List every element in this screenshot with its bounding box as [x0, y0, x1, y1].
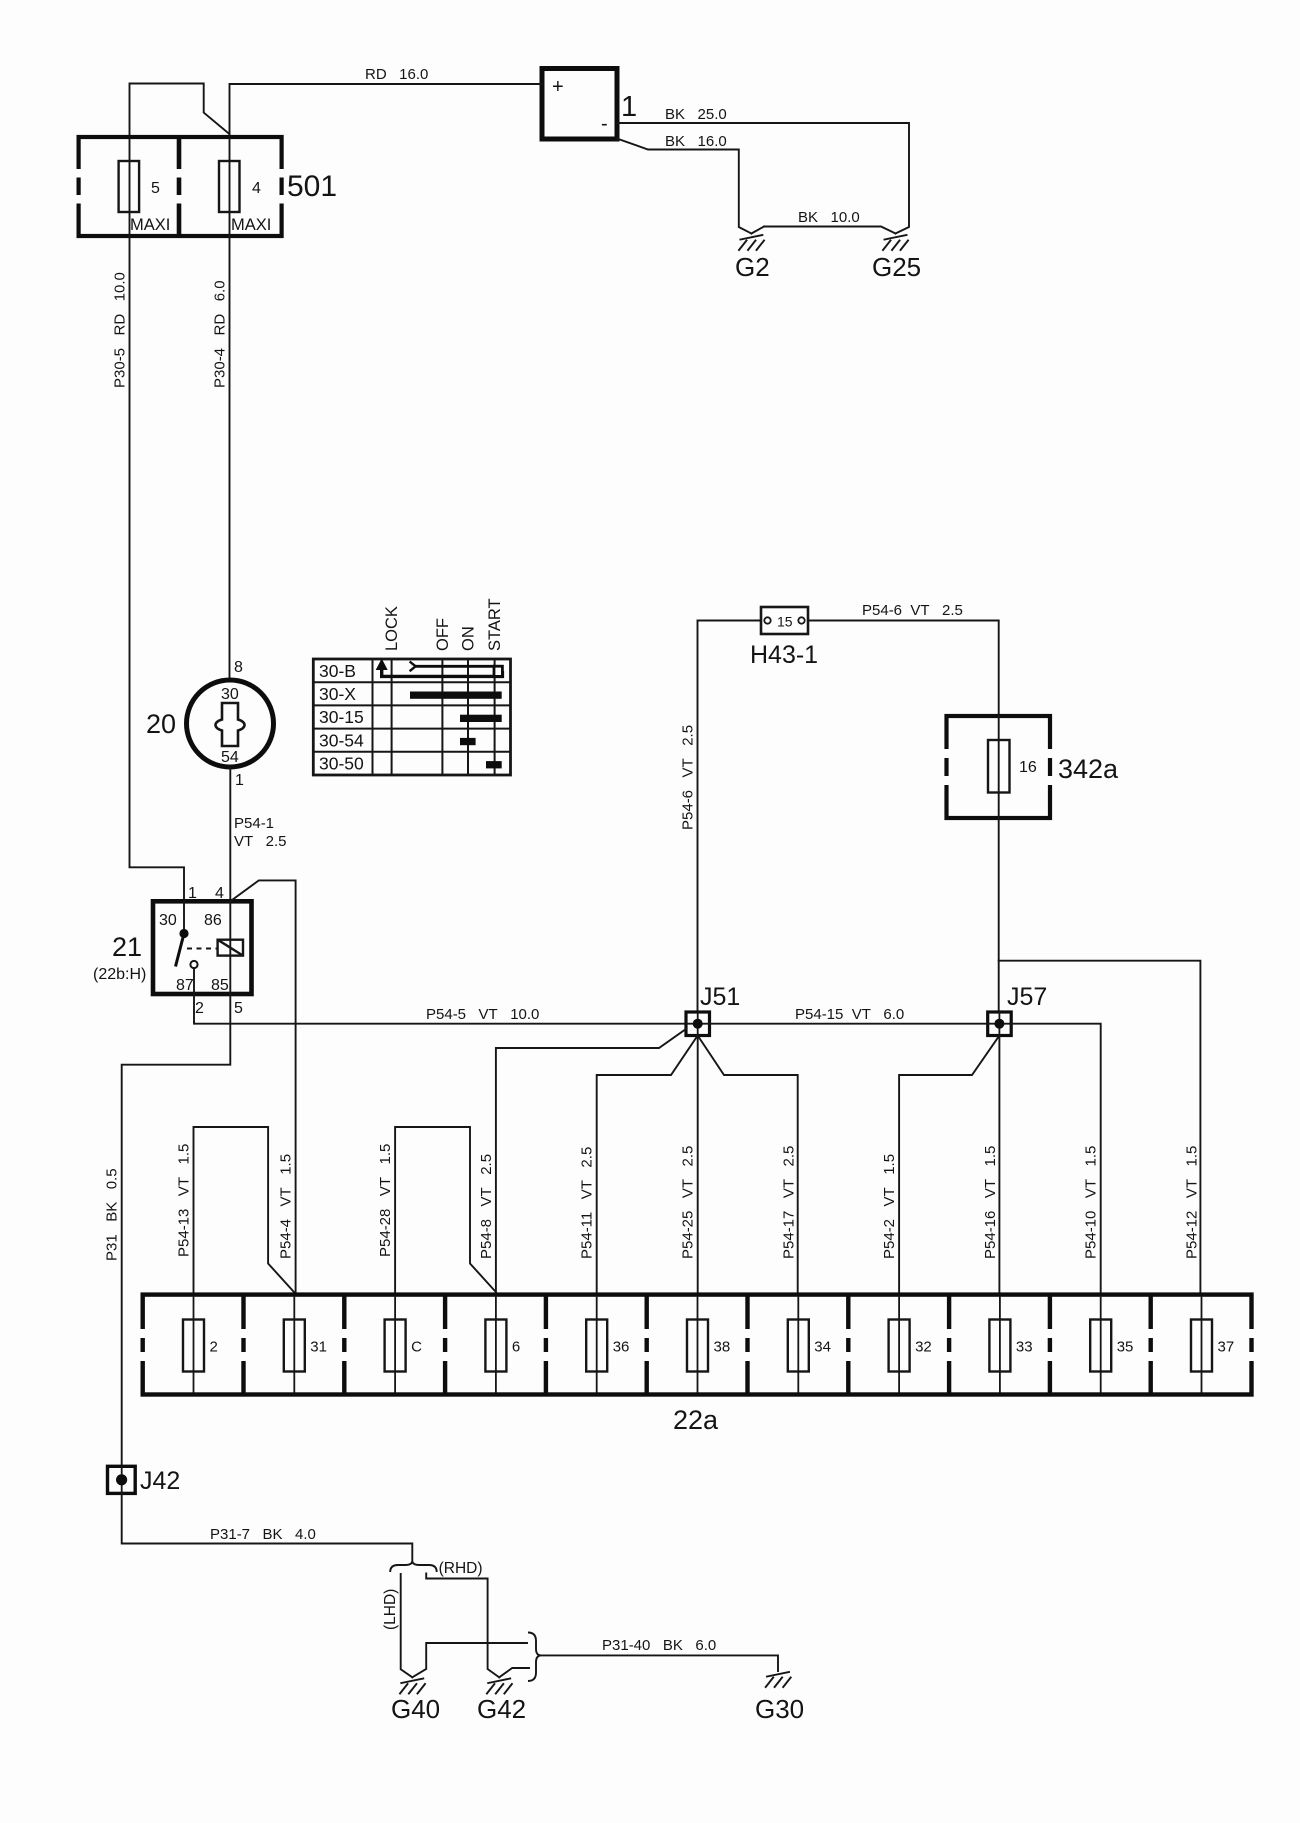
fuse C in 22a [385, 1297, 423, 1393]
svg-text:30: 30 [221, 686, 239, 703]
relay coil box [218, 940, 243, 956]
svg-text:15: 15 [777, 614, 793, 630]
svg-text:87: 87 [176, 977, 194, 994]
wire BK 25.0 battery- to G25 [617, 123, 909, 234]
svg-text:1: 1 [235, 772, 244, 789]
svg-text:P54-28 VT 1.5: P54-28 VT 1.5 [377, 1144, 394, 1257]
relay box 342a [942, 716, 1055, 818]
wire P54-6 VT 2.5 J51 up to fuse H43-1 [698, 621, 762, 1013]
svg-text:342a: 342a [1058, 754, 1119, 784]
svg-text:P54-12 VT 1.5: P54-12 VT 1.5 [1184, 1146, 1201, 1259]
battery 1 [542, 69, 617, 140]
svg-text:G2: G2 [735, 252, 770, 282]
wire J51 branch to fuse 34 [698, 1036, 798, 1294]
relay pin1 stub [183, 901, 185, 933]
svg-text:+: + [552, 76, 564, 98]
svg-text:ON: ON [460, 626, 478, 651]
wire loop fuse C to fuse 6 [395, 1127, 496, 1293]
svg-text:START: START [486, 598, 504, 651]
svg-text:34: 34 [814, 1339, 831, 1356]
svg-text:4: 4 [252, 180, 261, 197]
fuse 6 in 22a [485, 1297, 520, 1393]
svg-text:36: 36 [613, 1339, 630, 1356]
svg-text:P54-8 VT 2.5: P54-8 VT 2.5 [478, 1154, 495, 1259]
node J42 [108, 1466, 136, 1493]
ignition switch 20 circle [187, 680, 274, 767]
wire relay pin5 to J42 [122, 994, 231, 1466]
svg-text:P30-5 RD 10.0: P30-5 RD 10.0 [112, 272, 129, 388]
svg-text:RD 16.0: RD 16.0 [365, 66, 428, 83]
svg-text:P54-5 VT 10.0: P54-5 VT 10.0 [426, 1006, 539, 1023]
svg-text:30-50: 30-50 [319, 754, 364, 774]
svg-text:4: 4 [215, 885, 224, 902]
svg-text:38: 38 [714, 1339, 731, 1356]
ignition key symbol [216, 703, 245, 746]
svg-text:P54-10 VT 1.5: P54-10 VT 1.5 [1083, 1146, 1100, 1259]
node J57 [988, 1012, 1012, 1036]
svg-text:J51: J51 [700, 983, 740, 1011]
table bar 30-50 [486, 761, 502, 768]
svg-text:BK 25.0: BK 25.0 [665, 106, 727, 123]
svg-text:501: 501 [287, 170, 337, 203]
svg-text:P31-7 BK 4.0: P31-7 BK 4.0 [210, 1526, 316, 1543]
wire P54-6 VT 2.5 fuse to 342a [808, 621, 999, 717]
svg-text:(LHD): (LHD) [382, 1589, 399, 1630]
wire P30-5 RD 10.0 fuse5 to relay pin1 [130, 236, 185, 901]
svg-text:22a: 22a [673, 1405, 719, 1435]
wire G40 collect to brace [412, 1643, 527, 1677]
svg-text:LOCK: LOCK [383, 606, 401, 651]
svg-text:P54-16 VT 1.5: P54-16 VT 1.5 [982, 1146, 999, 1259]
brace collect to P31-40 [528, 1633, 541, 1682]
table 30-B key arrow symbol [376, 659, 503, 677]
wire J57 down to fuse 33 [998, 1036, 1000, 1294]
svg-text:P54-6 VT 2.5: P54-6 VT 2.5 [862, 602, 963, 619]
fuse 36 in 22a [586, 1297, 629, 1393]
wire BK 10.0 between G2 and G25 [751, 227, 895, 234]
svg-text:-: - [601, 113, 608, 135]
svg-text:6: 6 [512, 1339, 520, 1356]
wire J51 branch to fuse 6 [496, 1029, 686, 1293]
relay 21 box [153, 901, 252, 994]
fuse 37 in 22a [1191, 1297, 1234, 1393]
fuse 5 MAXI [119, 137, 171, 236]
wire 342a down to J57 [998, 818, 1000, 1012]
brace split LHD/RHD [390, 1562, 437, 1573]
svg-text:P31-40 BK 6.0: P31-40 BK 6.0 [602, 1637, 716, 1654]
svg-text:30-54: 30-54 [319, 731, 364, 751]
wire J51 branch to fuse 36 [597, 1036, 698, 1294]
fuse 38 in 22a [687, 1297, 730, 1393]
svg-text:G42: G42 [477, 1694, 526, 1724]
wire P54-1 VT 2.5 ignition pin1 to relay pin4 [229, 767, 231, 901]
svg-text:MAXI: MAXI [231, 216, 271, 234]
table bar 30-X [410, 692, 502, 699]
svg-text:32: 32 [915, 1339, 932, 1356]
svg-text:J42: J42 [140, 1467, 180, 1495]
svg-text:86: 86 [204, 912, 222, 929]
svg-text:J57: J57 [1007, 983, 1047, 1011]
svg-text:P54-1: P54-1 [234, 815, 274, 832]
ground G42 [487, 1679, 512, 1694]
svg-text:P54-6 VT 2.5: P54-6 VT 2.5 [680, 725, 697, 830]
node J51 [686, 1012, 710, 1036]
svg-text:85: 85 [211, 977, 229, 994]
fuse 33 in 22a [989, 1297, 1032, 1393]
svg-text:BK 16.0: BK 16.0 [665, 133, 727, 150]
svg-text:30-15: 30-15 [319, 707, 364, 727]
svg-text:37: 37 [1218, 1339, 1235, 1356]
svg-text:8: 8 [234, 659, 243, 676]
ground G2 [739, 235, 764, 250]
ground G30 [766, 1672, 791, 1687]
svg-text:35: 35 [1117, 1339, 1134, 1356]
wire branch relay pin4 node to fuse 31 [230, 880, 295, 1293]
svg-text:C: C [411, 1339, 422, 1356]
svg-text:1: 1 [188, 885, 197, 902]
svg-text:(22b:H): (22b:H) [93, 966, 146, 983]
wire RD 16.0 battery+ to fuses [130, 84, 543, 138]
svg-text:MAXI: MAXI [130, 216, 170, 234]
svg-text:21: 21 [112, 932, 142, 962]
fuse box 22a outline [143, 1295, 1252, 1395]
svg-text:G40: G40 [391, 1694, 440, 1724]
svg-text:BK 10.0: BK 10.0 [798, 209, 860, 226]
wire loop fuse 2 to fuse 31 [194, 1127, 295, 1293]
svg-text:20: 20 [146, 709, 176, 739]
svg-text:VT 2.5: VT 2.5 [234, 833, 287, 850]
wire J51 down to fuse 38 [697, 1036, 699, 1294]
svg-text:54: 54 [221, 749, 239, 766]
fuse 32 in 22a [889, 1297, 932, 1393]
svg-text:P54-2 VT 1.5: P54-2 VT 1.5 [881, 1154, 898, 1259]
wire J57 branch to fuse 35 [1011, 1024, 1100, 1293]
svg-text:P54-4 VT 1.5: P54-4 VT 1.5 [277, 1154, 294, 1259]
svg-text:P54-17 VT 2.5: P54-17 VT 2.5 [780, 1146, 797, 1259]
wire P31-7 BK 4.0 J42 to brace [122, 1493, 413, 1561]
wire P54-15 VT 6.0 J51 to J57 [710, 1023, 988, 1025]
fuse box 501 outline [74, 137, 287, 236]
wire BK 16.0 battery- to G2 [617, 139, 751, 234]
wire P54-5 VT 10.0 relay pin2 to J51 [194, 1022, 686, 1024]
table bar 30-15 [460, 715, 502, 722]
wire branch to fuse 37 [999, 961, 1201, 1293]
fuse 34 in 22a [788, 1297, 831, 1393]
svg-text:OFF: OFF [434, 618, 452, 651]
relay switch contact dot [179, 929, 188, 938]
svg-text:P54-25 VT 2.5: P54-25 VT 2.5 [680, 1146, 697, 1259]
wire P31-40 BK 6.0 to G30 [541, 1655, 779, 1671]
fuse 4 MAXI [219, 137, 271, 236]
svg-text:31: 31 [310, 1339, 327, 1356]
fuse 2 in 22a [183, 1297, 218, 1393]
svg-text:P31 BK 0.5: P31 BK 0.5 [104, 1168, 121, 1261]
fuse H43-1 [761, 607, 808, 634]
fuse box 22a divider dash gaps [139, 1329, 1255, 1361]
svg-text:2: 2 [195, 1000, 204, 1017]
svg-text:P30-4 RD 6.0: P30-4 RD 6.0 [212, 280, 229, 388]
fuse 16 inside 342a [988, 716, 1037, 818]
ground G40 [400, 1679, 425, 1694]
svg-text:30: 30 [159, 912, 177, 929]
svg-text:5: 5 [151, 180, 160, 197]
relay pin4 wire through coil [229, 901, 231, 994]
relay coil dashed link [187, 948, 218, 950]
svg-text:2: 2 [210, 1339, 218, 1356]
ignition position table [313, 659, 510, 775]
svg-text:P54-11 VT 2.5: P54-11 VT 2.5 [579, 1147, 596, 1259]
wire P30-4 RD 6.0 fuse4 to ignition pin 8 [229, 236, 231, 678]
relay switch arm [176, 934, 185, 967]
wire J57 branch to fuse 32 [899, 1036, 999, 1294]
svg-text:H43-1: H43-1 [750, 641, 818, 669]
wire G42 collect to brace [499, 1668, 529, 1677]
fuse 35 in 22a [1090, 1297, 1133, 1393]
svg-text:G25: G25 [872, 252, 921, 282]
ground G25 [883, 235, 908, 250]
svg-text:30-X: 30-X [319, 684, 356, 704]
svg-text:5: 5 [234, 1000, 243, 1017]
svg-text:30-B: 30-B [319, 661, 356, 681]
svg-text:P54-15 VT 6.0: P54-15 VT 6.0 [795, 1006, 904, 1023]
table bar 30-54 [460, 738, 476, 745]
svg-text:33: 33 [1016, 1339, 1033, 1356]
wire relay pin2 to P54-5 [193, 968, 195, 1022]
svg-text:P54-13 VT 1.5: P54-13 VT 1.5 [176, 1144, 193, 1257]
svg-text:16: 16 [1019, 759, 1037, 776]
svg-text:G30: G30 [755, 1694, 804, 1724]
svg-text:1: 1 [621, 91, 637, 123]
fuse 31 in 22a [284, 1297, 327, 1393]
svg-text:(RHD): (RHD) [439, 1560, 483, 1577]
wire LHD to G40 [401, 1574, 413, 1677]
wire RHD to G42 [426, 1574, 499, 1678]
relay contact circle 87 [190, 961, 197, 968]
